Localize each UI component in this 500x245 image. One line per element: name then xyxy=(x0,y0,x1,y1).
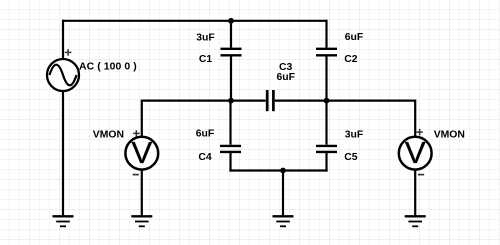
left VMON minus polarity mark xyxy=(133,174,139,176)
wire right VMON to ground xyxy=(414,170,416,217)
wire middle horizontal right of C3 xyxy=(275,99,415,101)
junction dot bottom wire / center ground xyxy=(280,168,286,174)
ground at AC source xyxy=(53,216,74,226)
wire bottom horizontal C4 to C5 xyxy=(229,169,327,171)
svg-text:VMON: VMON xyxy=(93,129,124,140)
right VMON minus polarity mark xyxy=(418,174,424,176)
voltmeter VMON right xyxy=(399,135,432,170)
wire top horizontal from AC to C2 xyxy=(63,20,327,22)
wire left VMON to ground xyxy=(141,170,143,217)
svg-text:6uF: 6uF xyxy=(345,32,363,43)
ground below left VMON xyxy=(131,216,152,226)
svg-text:C4: C4 xyxy=(198,152,212,163)
svg-text:AC ( 100 0 ): AC ( 100 0 ) xyxy=(79,61,137,72)
svg-text:3uF: 3uF xyxy=(345,129,363,140)
wire AC top vertical xyxy=(62,20,64,59)
AC source V1 xyxy=(47,59,79,91)
ground below right VMON xyxy=(405,216,426,226)
svg-text:6uF: 6uF xyxy=(196,129,214,140)
AC plus polarity mark xyxy=(65,49,72,56)
svg-text:V: V xyxy=(131,135,152,170)
capacitor C1 xyxy=(221,21,242,101)
capacitor C2 xyxy=(316,49,337,101)
svg-text:C5: C5 xyxy=(344,152,358,163)
svg-text:3uF: 3uF xyxy=(196,33,214,44)
wire AC bottom vertical to ground xyxy=(62,92,64,216)
voltmeter VMON left xyxy=(125,135,158,170)
svg-text:6uF: 6uF xyxy=(276,72,294,83)
svg-text:V: V xyxy=(405,135,426,170)
wire right VMON drop xyxy=(414,100,416,138)
capacitor C3 xyxy=(267,90,273,111)
svg-text:C1: C1 xyxy=(199,54,213,65)
capacitor C5 xyxy=(316,101,337,172)
wire center ground drop xyxy=(282,171,284,217)
junction dot middle wire / C1-C4 xyxy=(228,98,234,104)
ground center xyxy=(273,216,294,226)
junction dot middle wire / C2-C5 xyxy=(324,98,330,104)
junction dot top wire / C1 xyxy=(228,18,234,24)
svg-text:C2: C2 xyxy=(344,54,358,65)
right VMON plus polarity mark xyxy=(416,129,423,135)
capacitor C4 xyxy=(220,101,241,172)
left VMON plus polarity mark xyxy=(133,130,140,136)
wire C2 top vertical xyxy=(325,20,327,48)
svg-text:VMON: VMON xyxy=(434,130,465,141)
wire left VMON drop xyxy=(141,100,143,138)
wire middle horizontal left of C3 xyxy=(142,99,266,101)
